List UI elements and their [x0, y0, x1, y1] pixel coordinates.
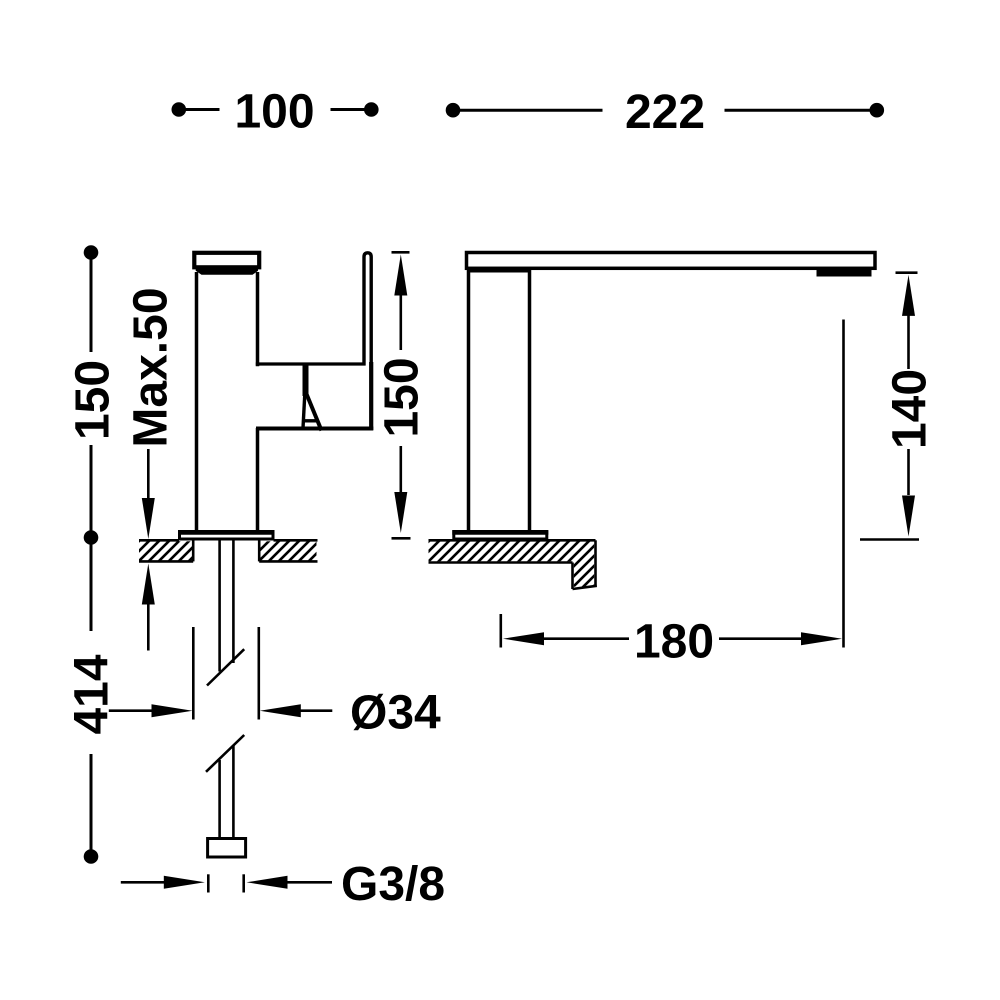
dimension 150 right: upper line — [399, 295, 402, 351]
dimension G3/8: left line — [121, 881, 165, 884]
dimension 150 right: down arrow — [394, 492, 407, 533]
dimension G3/8: right arrow — [247, 876, 288, 889]
dimension 150 left: lower line — [90, 445, 93, 538]
supply pipe upper left line — [218, 541, 221, 672]
side view: lever left leg — [303, 394, 305, 430]
dimension 100: right line — [331, 108, 372, 111]
side view: body left edge — [195, 272, 199, 533]
front view: spout bar — [467, 253, 876, 269]
side view counter: top line right — [274, 539, 318, 542]
front view counter: hatch — [429, 542, 595, 587]
dimension G3/8: left tick — [207, 874, 210, 892]
dimension 222: left line — [453, 109, 603, 112]
side view: cartridge stem — [303, 365, 309, 396]
side view: base flange thick top — [178, 530, 275, 535]
dimension Ø34: right line — [300, 709, 333, 712]
dimension 150 right: up arrow — [394, 255, 407, 296]
dimension 414: lower line — [90, 754, 93, 857]
dimension 180: left extension tick — [499, 614, 502, 648]
supply pipe lower left line — [218, 760, 221, 839]
side view: lever right leg diagonal — [307, 394, 322, 431]
svg-text:140: 140 — [884, 369, 937, 449]
dimension 150/414 shared dot — [84, 530, 99, 545]
dimension 100: left dot — [172, 102, 187, 117]
svg-text:G3/8: G3/8 — [341, 858, 445, 911]
side view: handle mount right edge — [369, 362, 373, 430]
side view: handle blade — [364, 253, 371, 366]
dimension 180: right line — [719, 637, 801, 640]
dimension 180: left arrow — [503, 632, 544, 645]
dimension 150 left: top dot — [84, 245, 99, 260]
dimension 150 left: upper line — [90, 253, 93, 353]
front view counter: leg bottom — [573, 586, 597, 589]
dimension Ø34: left arrow — [152, 704, 193, 717]
dimension 414: bottom dot — [84, 849, 99, 864]
dimension 140: top tick — [896, 271, 918, 274]
side view: body right edge upper — [256, 272, 260, 366]
side view counter: hatch right block — [260, 541, 316, 561]
front view: riser top junction line — [467, 270, 530, 273]
dimension 140: up arrow — [902, 275, 915, 316]
side view counter: hole right edge — [258, 540, 261, 561]
front view: riser left edge — [467, 269, 471, 532]
supply pipe lower break diagonal — [206, 735, 244, 772]
dimension 222: left dot — [446, 103, 461, 118]
side view counter: hole left edge — [192, 540, 195, 561]
front view counter: top line — [429, 539, 596, 542]
side view: spout cap outline — [194, 253, 259, 267]
dimension 140: bottom tick and counter extension — [860, 538, 919, 541]
svg-text:Max.50: Max.50 — [125, 287, 178, 447]
supply pipe lower right line — [232, 745, 235, 839]
front view counter: right edge — [594, 540, 597, 587]
svg-text:222: 222 — [625, 86, 705, 139]
front view counter: band bottom line — [429, 561, 573, 564]
dimension Max.50: lower line — [147, 604, 150, 651]
dimension G3/8: left arrow — [164, 876, 205, 889]
svg-text:150: 150 — [67, 360, 120, 440]
dimension Ø34: right arrow — [260, 704, 301, 717]
side view: base flange — [180, 532, 274, 540]
front view counter: leg left edge — [571, 563, 574, 590]
dimension Max.50: up arrow — [142, 564, 155, 605]
svg-text:150: 150 — [376, 357, 429, 437]
side view: aerator black band — [196, 266, 258, 275]
front view: base flange — [454, 532, 547, 540]
dimension 222: right line — [725, 109, 877, 112]
dimension 180: right extension line — [842, 320, 845, 648]
front view: riser right edge — [528, 269, 532, 532]
front view: aerator black block — [817, 269, 872, 277]
side view: handle mount bottom line — [256, 427, 373, 431]
supply pipe upper right line — [232, 541, 235, 664]
side view: handle mount top line — [256, 362, 366, 365]
supply pipe upper break diagonal — [207, 649, 244, 685]
dimension 150 right: bottom tick — [392, 537, 411, 540]
svg-text:Ø34: Ø34 — [350, 687, 441, 740]
dimension 414: upper line — [90, 538, 93, 632]
dimension G3/8: right tick — [242, 874, 245, 892]
side view counter: hatch left block — [139, 541, 192, 561]
dimension Max.50: down arrow — [142, 498, 155, 539]
dimension G3/8: right line — [287, 881, 333, 884]
dimension Max.50: upper line — [147, 449, 150, 499]
dimension 150 right: lower line — [399, 446, 402, 492]
dimension 150 right: top tick — [392, 251, 410, 254]
dimension 100: right dot — [364, 102, 379, 117]
G3/8 end fitting box — [208, 839, 246, 858]
side view counter: top line left — [139, 539, 179, 542]
dimension 180: left line — [543, 637, 629, 640]
side view: body right edge lower — [256, 428, 260, 533]
hole diameter extent line left — [192, 627, 195, 720]
hole diameter extent line right — [257, 627, 260, 720]
dimension 140: down arrow — [902, 496, 915, 537]
svg-text:414: 414 — [66, 654, 119, 734]
side view counter: bottom line right — [259, 560, 317, 563]
dimension 180: right arrow — [801, 632, 842, 645]
side view counter: bottom line left — [139, 560, 193, 563]
dimension 222: right dot — [870, 103, 885, 118]
dimension 140: lower line — [907, 449, 910, 495]
side view: lever crossbar — [302, 419, 318, 422]
front view: base flange thick top — [452, 530, 548, 535]
dimension 100: left line — [179, 108, 220, 111]
dimension 140: upper line — [907, 315, 910, 369]
svg-text:180: 180 — [634, 616, 714, 669]
dimension Ø34: left line — [109, 709, 153, 712]
svg-text:100: 100 — [234, 85, 314, 138]
